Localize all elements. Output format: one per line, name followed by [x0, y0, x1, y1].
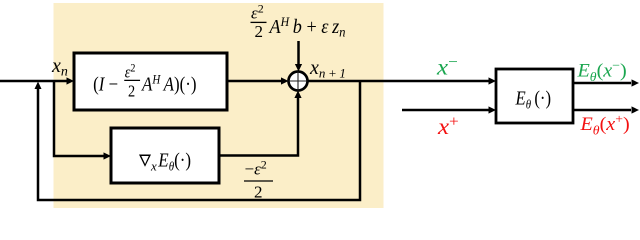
arrowhead: into summing junction top	[295, 64, 302, 72]
arrowhead: into summing junction bottom	[294, 91, 301, 99]
arrowhead: into block U2	[104, 152, 112, 159]
svg-text:AH b + ε zn: AH b + ε zn	[268, 14, 346, 39]
svg-text:Eθ (·): Eθ (·)	[515, 87, 551, 112]
svg-text:x−: x−	[436, 53, 458, 81]
block U2 label	[139, 149, 191, 173]
svg-text:(I −: (I −	[93, 74, 118, 96]
svg-text:x: x	[150, 159, 157, 174]
wire: block U3 bottom output E_theta(x+)	[573, 109, 631, 112]
arrowhead: into block U3 bottom input	[489, 106, 497, 113]
svg-text:Eθ(x−): Eθ(x−)	[576, 58, 626, 84]
label x- (green)	[436, 53, 458, 81]
block U3 E_theta(.)	[496, 69, 573, 123]
wire: noise/bias input from top into summing junction	[297, 41, 300, 64]
svg-text:2: 2	[254, 183, 263, 202]
wire: x+ input to block U3	[402, 109, 489, 112]
block U2 nabla_x E_theta(.)	[111, 128, 219, 183]
wire: gradient block U2 output right and up into summing junction bottom	[219, 98, 298, 156]
summing junction	[289, 72, 308, 91]
arrowhead: into summing junction left	[281, 77, 289, 84]
wire: input rail x_n	[0, 80, 67, 83]
shaded sampler region	[54, 3, 384, 208]
arrowhead: feedback into input rail	[35, 82, 42, 90]
svg-text:2: 2	[128, 82, 135, 100]
wire: block U3 top output E_theta(x-)	[573, 82, 631, 85]
block U1 (I - eps^2/2 A^H A)(.)	[74, 53, 227, 110]
svg-text:x+: x+	[437, 112, 459, 140]
wire: branch from input rail down to gradient block U2	[54, 81, 104, 156]
svg-text:Eθ(x+): Eθ(x+)	[579, 111, 629, 137]
label x+ (red)	[437, 112, 459, 140]
block U1 label	[93, 62, 196, 101]
wire: block U1 output to summing junction	[227, 80, 281, 83]
svg-text:AH A)(·): AH A)(·)	[140, 72, 196, 96]
arrowhead: top output end	[632, 79, 640, 86]
svg-text:Eθ(·): Eθ(·)	[157, 149, 191, 173]
arrowhead: into block U3 top input	[489, 77, 497, 84]
label E_theta(x+) (red)	[579, 111, 629, 137]
summing junction plus	[289, 72, 308, 91]
arrowhead: into block U1	[67, 77, 75, 84]
label -eps^2/2 gain	[244, 158, 273, 202]
svg-text:2: 2	[255, 22, 264, 41]
wire: feedback loop from x_{n+1} down, left and up into input rail	[38, 81, 360, 200]
wire: summing junction output x_{n+1} to block U3	[308, 80, 490, 83]
arrowhead: bottom output end	[632, 106, 640, 113]
block U3 label	[515, 87, 551, 112]
label eps^2/2 A^H b + eps z_n	[251, 2, 346, 42]
label E_theta(x-) (green)	[576, 58, 626, 84]
